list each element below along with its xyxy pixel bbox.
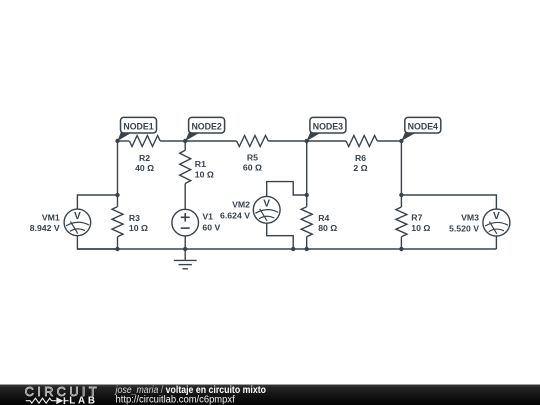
svg-text:10 Ω: 10 Ω <box>129 223 148 233</box>
resistor R7 <box>396 195 430 249</box>
wire: top rail NODE1 to R2 <box>118 140 130 142</box>
wire: VM2 top jog to R4 junction <box>267 182 307 197</box>
wire: bottom rail <box>77 248 496 250</box>
wire: R1 to V1 <box>184 184 186 210</box>
footer logo CIRCUIT <box>25 385 99 399</box>
svg-text:80 Ω: 80 Ω <box>318 223 337 233</box>
resistor R4 <box>301 195 337 249</box>
svg-text:R2: R2 <box>139 153 150 163</box>
wire: NODE3 to R6 <box>307 140 346 142</box>
node NODE1 junction <box>115 139 119 143</box>
resistor R2 <box>129 136 160 174</box>
ground <box>174 249 197 269</box>
svg-text:60 V: 60 V <box>202 223 220 233</box>
svg-text:R3: R3 <box>129 213 140 223</box>
junction VM2/R4 top <box>305 193 309 197</box>
wire: V1 to bottom rail <box>184 236 186 249</box>
wire: VM2 bottom jog to rail <box>267 223 294 249</box>
svg-text:VM1: VM1 <box>42 212 60 222</box>
node NODE2 junction <box>183 139 187 143</box>
footer logo resistor-diode-LAB <box>26 395 95 405</box>
svg-text:NODE4: NODE4 <box>408 122 438 132</box>
wire: R5 to NODE3 <box>268 140 307 142</box>
junction R4 bottom rail <box>305 247 309 251</box>
svg-text:R4: R4 <box>318 213 329 223</box>
wire: VM3 top to R7 junction <box>401 195 496 209</box>
wire: NODE3 down to R4 junction <box>306 141 308 195</box>
svg-text:5.520 V: 5.520 V <box>449 223 479 233</box>
node NODE2 label <box>185 117 224 141</box>
resistor R6 <box>346 136 377 174</box>
junction R7/VM3 top <box>399 193 403 197</box>
resistor R3 <box>112 195 148 249</box>
node NODE3 junction <box>305 139 309 143</box>
node NODE1 label <box>118 117 157 141</box>
svg-text:10 Ω: 10 Ω <box>411 223 430 233</box>
svg-text:V: V <box>74 211 81 222</box>
svg-text:V: V <box>263 198 270 209</box>
wire: VM1 bottom to rail <box>77 236 117 249</box>
svg-text:http://circuitlab.com/c6pmpxf: http://circuitlab.com/c6pmpxf <box>116 394 235 405</box>
voltmeter VM2 <box>220 196 280 223</box>
resistor R5 <box>237 136 269 173</box>
wire: NODE1 down to VM1 junction <box>117 141 119 195</box>
junction R3 bottom rail <box>115 247 119 251</box>
node NODE4 junction <box>399 139 403 143</box>
junction VM1/R3 top <box>115 193 119 197</box>
voltage source V1 <box>172 209 221 236</box>
svg-text:10 Ω: 10 Ω <box>195 170 214 180</box>
svg-text:40 Ω: 40 Ω <box>135 163 154 173</box>
resistor R1 <box>180 150 214 183</box>
svg-text:V: V <box>493 211 500 222</box>
node NODE4 label <box>401 117 440 141</box>
svg-text:NODE2: NODE2 <box>191 122 221 132</box>
wire: VM3 bottom to rail <box>495 236 497 249</box>
svg-text:LAB: LAB <box>69 395 95 405</box>
svg-text:6.624 V: 6.624 V <box>220 211 250 221</box>
wire: NODE4 down to R7 junction <box>400 141 402 195</box>
junction V1 bottom rail <box>183 247 187 251</box>
footer title text <box>114 385 266 405</box>
svg-text:8.942 V: 8.942 V <box>30 223 60 233</box>
svg-text:VM2: VM2 <box>232 200 250 210</box>
wire: R6 to NODE4 <box>377 140 401 142</box>
wire: VM1 top to node A junction <box>77 195 117 209</box>
svg-text:VM3: VM3 <box>461 212 479 222</box>
svg-text:V1: V1 <box>202 212 213 222</box>
wire: NODE2 down to R1 <box>184 141 186 150</box>
svg-text:R6: R6 <box>355 153 366 163</box>
svg-text:60 Ω: 60 Ω <box>243 163 262 173</box>
junction R7 bottom rail <box>399 247 403 251</box>
svg-text:R1: R1 <box>195 159 206 169</box>
wire: R2 to NODE2 <box>160 140 185 142</box>
svg-text:R5: R5 <box>247 153 258 163</box>
voltmeter VM3 <box>449 209 510 236</box>
voltmeter VM1 <box>30 209 91 236</box>
junction VM2 bottom rail <box>291 247 295 251</box>
wire: NODE2 to R5 <box>185 140 236 142</box>
svg-text:NODE3: NODE3 <box>313 122 343 132</box>
node NODE3 label <box>307 117 346 141</box>
svg-text:2 Ω: 2 Ω <box>353 163 367 173</box>
svg-text:R7: R7 <box>411 212 422 222</box>
svg-text:NODE1: NODE1 <box>123 122 153 132</box>
